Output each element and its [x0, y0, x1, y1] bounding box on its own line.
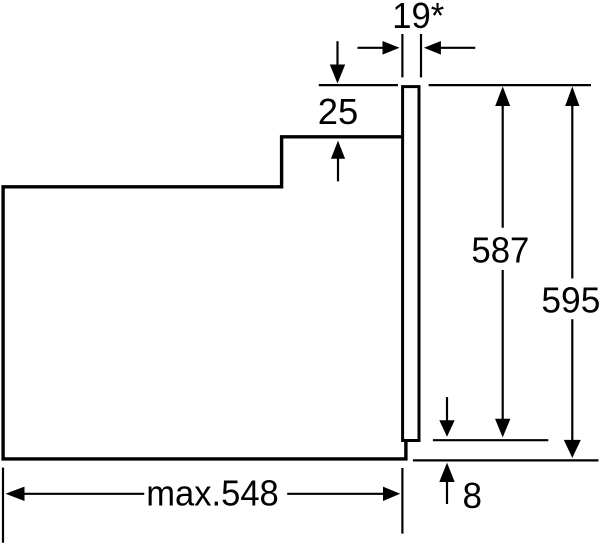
- max.548 left arrow: [6, 487, 145, 501]
- max.548 right arrow: [287, 487, 400, 501]
- top reference line right segment: [429, 84, 591, 86]
- 595 dimension lower arrow: [564, 319, 581, 458]
- left extension line: [2, 468, 4, 543]
- 587 bottom reference line: [433, 439, 548, 441]
- svg-text:595: 595: [541, 280, 600, 321]
- 595 dimension upper arrow: [565, 86, 579, 278]
- 8 arrow down: [439, 397, 454, 437]
- svg-text:max.548: max.548: [146, 473, 279, 514]
- 19* extension line left: [401, 34, 403, 77]
- 587 dimension upper arrow: [495, 86, 510, 227]
- svg-text:8: 8: [463, 475, 483, 516]
- svg-text:19*: 19*: [392, 0, 444, 36]
- oven front panel: [403, 87, 419, 441]
- svg-text:25: 25: [318, 91, 359, 132]
- 25 arrow down: [330, 41, 345, 83]
- 25 arrow up: [331, 141, 345, 182]
- 19* extension line right: [420, 34, 422, 77]
- 19* arrow pointing left: [424, 41, 475, 55]
- 8 arrow up: [439, 463, 454, 504]
- oven body outline: [3, 137, 406, 459]
- 587 dimension lower arrow: [495, 270, 510, 437]
- 595 and 8 bottom reference line: [413, 459, 599, 461]
- top reference line left segment: [319, 84, 398, 86]
- 19* arrow pointing right: [358, 41, 400, 55]
- right extension line below panel: [401, 468, 403, 534]
- svg-text:587: 587: [471, 230, 529, 271]
